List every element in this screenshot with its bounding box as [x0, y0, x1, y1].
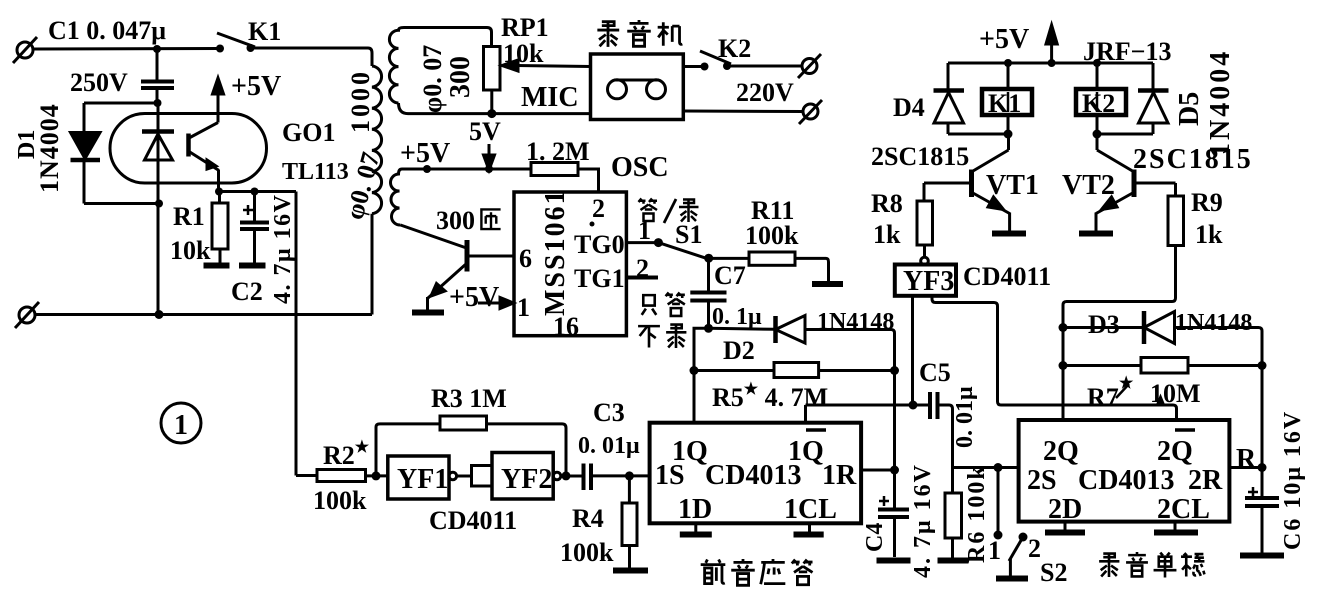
label R7 star: [1087, 375, 1134, 412]
node C2 tap: [251, 188, 259, 196]
wire secondary bottom to recorder: [399, 103, 591, 114]
ground VT1: [992, 231, 1026, 237]
svg-text:R6 100k: R6 100k: [964, 464, 990, 563]
svg-text:D5: D5: [1174, 92, 1205, 126]
transistor VT2 2SC1815: [1096, 134, 1176, 231]
svg-text:0. 1μ: 0. 1μ: [712, 304, 762, 330]
svg-text:2SC1815: 2SC1815: [1133, 144, 1253, 175]
svg-text:2: 2: [592, 194, 605, 223]
wire to D1: [84, 102, 158, 105]
node S2 branch: [994, 463, 1003, 472]
svg-text:S2: S2: [1040, 558, 1067, 587]
wire K2 to 220V: [727, 65, 801, 68]
wire rail to R2: [296, 474, 317, 477]
wire S1 to R11: [709, 257, 749, 260]
svg-text:D3: D3: [1088, 310, 1120, 339]
wire GO1 to R2 vertical: [295, 192, 298, 476]
svg-text:S1: S1: [675, 220, 702, 249]
svg-text:CD4011: CD4011: [429, 506, 517, 535]
node YF3 output to C5: [909, 401, 918, 410]
resistor R6 100k: [945, 468, 962, 559]
switch K2: [683, 51, 731, 71]
svg-text:D2: D2: [723, 336, 755, 365]
ground R6: [938, 558, 969, 564]
label qianyin yingda: [701, 559, 813, 585]
node D1 return on main vertical: [155, 200, 163, 208]
svg-text:2: 2: [636, 254, 649, 283]
svg-text:0. 01μ: 0. 01μ: [578, 433, 640, 459]
power +5V arrow top right: [1046, 25, 1057, 63]
svg-text:R: R: [1236, 444, 1257, 475]
label da/lu answer-record: [639, 199, 699, 224]
svg-text:C6 10μ 16V: C6 10μ 16V: [1280, 410, 1306, 550]
svg-text:1000: 1000: [346, 69, 375, 133]
wire R3 feedback left: [376, 424, 440, 476]
node emitter junction: [215, 188, 223, 196]
resistor 1.2M osc: [531, 163, 599, 193]
svg-text:R2★: R2★: [323, 439, 370, 470]
svg-text:MIC: MIC: [521, 82, 579, 113]
node RP1 bottom: [487, 109, 496, 118]
power +5V arrow at GO1: [213, 78, 224, 123]
wire 1Qbar to C5: [806, 405, 930, 423]
potentiometer RP1 10k: [484, 47, 591, 114]
label zhida answer-only: [642, 293, 685, 316]
wire D4 to K1 coil bottom: [948, 133, 1008, 136]
svg-text:1N4004: 1N4004: [35, 103, 64, 193]
relay coil K1: [982, 63, 1032, 134]
ground S2: [996, 576, 1028, 582]
tape recorder box: [591, 54, 684, 120]
svg-text:4. 7μ 16V: 4. 7μ 16V: [910, 463, 936, 578]
svg-text:★: ★: [1119, 375, 1134, 392]
svg-text:K2: K2: [1082, 89, 1115, 118]
svg-text:R4: R4: [572, 504, 604, 533]
label bulu no-record: [638, 325, 686, 348]
svg-text:300: 300: [436, 206, 475, 235]
GO1 internal LED: [142, 132, 174, 161]
svg-text:250V: 250V: [70, 68, 128, 97]
svg-text:100k: 100k: [313, 486, 367, 515]
IC U3 CD4013 second: [1019, 420, 1230, 522]
resistor R7 10M: [1063, 358, 1262, 374]
ground R11: [812, 281, 843, 287]
svg-text:1CL: 1CL: [784, 494, 837, 525]
svg-text:1N4004: 1N4004: [1205, 49, 1236, 157]
node D1 branch: [154, 99, 162, 107]
switch K1: [216, 33, 255, 53]
svg-text:OSC: OSC: [611, 152, 669, 183]
resistor R5 4.7M: [694, 363, 895, 378]
wire 1R to C4: [861, 469, 894, 472]
svg-text:1: 1: [638, 216, 651, 245]
svg-text:1S: 1S: [655, 460, 685, 491]
label za char: [481, 209, 500, 229]
GO1 phototransistor: [189, 123, 220, 192]
label 2Qbar: [1157, 430, 1195, 467]
wire bottom rail: [35, 313, 372, 316]
label TG0 star: [590, 222, 595, 227]
svg-text:YF1: YF1: [397, 464, 448, 495]
diode D3 1N4148: [1063, 311, 1259, 344]
wire top-left horizontal: [33, 47, 219, 51]
svg-text:1R: 1R: [822, 460, 857, 491]
svg-text:1: 1: [988, 536, 1001, 565]
svg-text:YF2: YF2: [501, 464, 552, 495]
wire recorder lower to 220V: [683, 110, 803, 114]
switch S1: [654, 238, 713, 263]
svg-text:R1: R1: [173, 202, 205, 231]
svg-text:VT2: VT2: [1062, 170, 1115, 201]
svg-text:R5★ 4. 7M: R5★ 4. 7M: [712, 381, 828, 412]
svg-text:6: 6: [519, 244, 532, 273]
wire TG0 to S1: [626, 241, 658, 244]
node D3 left: [1059, 323, 1068, 332]
power +5V arrow into pin1: [478, 298, 514, 309]
svg-text:10k: 10k: [503, 39, 544, 68]
wire C5 to 2S: [953, 466, 1019, 469]
svg-text:0. 01μ: 0. 01μ: [952, 386, 978, 448]
svg-text:1: 1: [174, 410, 188, 441]
svg-text:TG0: TG0: [574, 230, 625, 259]
node K1 coil bottom: [1004, 130, 1013, 139]
node +5V arrow: [1048, 59, 1056, 67]
wire D5 to K2 coil bottom: [1097, 133, 1153, 136]
svg-text:100k: 100k: [745, 221, 799, 250]
svg-text:1k: 1k: [1195, 220, 1223, 249]
svg-text:K2: K2: [718, 34, 751, 63]
node K2 coil bottom: [1093, 130, 1102, 139]
svg-text:2SC1815: 2SC1815: [871, 142, 969, 171]
node K2 coil top: [1093, 59, 1101, 67]
diode D2 1N4148: [709, 316, 892, 344]
node C1 tap: [153, 45, 161, 53]
wire D1 return: [84, 202, 159, 205]
transformer primary winding 1000 turns: [372, 66, 382, 315]
switch S2: [994, 468, 1028, 578]
ground R1: [204, 263, 230, 269]
gate YF1: [388, 456, 472, 499]
label recorder luyinji: [597, 20, 682, 47]
pin 2D ground: [1045, 522, 1085, 533]
node R7 left: [1059, 361, 1068, 370]
svg-text:C1 0. 047μ: C1 0. 047μ: [48, 16, 166, 45]
svg-text:R3 1M: R3 1M: [431, 384, 507, 413]
wire R9 jog to D3 rail: [1063, 298, 1176, 420]
ground VT2: [1079, 231, 1113, 237]
wire C7 node to 1Q pin vertical: [694, 328, 709, 423]
svg-text:K1: K1: [988, 89, 1021, 118]
capacitor C1: [141, 49, 174, 103]
transistor Q osc: [428, 240, 515, 310]
svg-text:CD4011: CD4011: [963, 262, 1051, 291]
resistor R4 100k: [622, 476, 637, 568]
svg-text:C7: C7: [714, 261, 746, 290]
terminal top-left phone line: [13, 37, 37, 63]
svg-text:R8: R8: [871, 189, 903, 218]
svg-text:C5: C5: [919, 358, 951, 387]
node bottom rail main vertical: [155, 310, 164, 319]
svg-text:2CL: 2CL: [1157, 494, 1210, 525]
wire D2 down right rail: [891, 330, 895, 510]
capacitor C3 0.01u: [584, 464, 650, 491]
svg-text:K1: K1: [248, 17, 281, 46]
resistor R2 100k: [317, 470, 388, 482]
capacitor C4 4.7u16V: [878, 496, 909, 557]
node R5 left: [690, 366, 699, 375]
pin TG1 stub: [626, 276, 658, 280]
node 5V arrow junction: [485, 165, 493, 173]
svg-text:2Q: 2Q: [1157, 436, 1193, 467]
IC U1 MSS1061: [514, 192, 626, 336]
node R7 right: [1258, 361, 1267, 370]
svg-text:C4: C4: [862, 523, 888, 552]
diode D4 1N4004: [934, 63, 965, 134]
svg-text:2S: 2S: [1027, 465, 1057, 496]
wire emitter rail: [219, 190, 296, 193]
ground Q osc: [412, 310, 444, 316]
svg-text:1: 1: [517, 293, 530, 322]
wire YF3 right pin to 2S node: [932, 296, 1177, 420]
wire main left vertical: [157, 103, 160, 315]
svg-text:+5V: +5V: [979, 24, 1029, 55]
svg-text:1. 2M: 1. 2M: [526, 137, 590, 166]
capacitor C6 10u16V: [1245, 487, 1279, 553]
label circled 1: [161, 403, 201, 443]
svg-text:CD4013: CD4013: [705, 460, 801, 491]
ground C2: [239, 263, 266, 269]
svg-text:2D: 2D: [1048, 494, 1082, 525]
wire +5V rail right: [948, 62, 1153, 65]
wire D3 right rail down: [1259, 328, 1263, 497]
capacitor C5 0.01u: [930, 392, 953, 468]
svg-text:TL113: TL113: [282, 159, 349, 185]
svg-text:300: 300: [445, 56, 476, 98]
svg-text:1k: 1k: [873, 220, 901, 249]
svg-text:220V: 220V: [736, 78, 794, 107]
svg-text:1N4148: 1N4148: [817, 309, 894, 335]
node YF2 output: [562, 471, 571, 480]
label 10M: [1150, 379, 1201, 408]
terminal bottom-left phone line: [15, 302, 39, 328]
label 1Qbar: [788, 430, 826, 467]
node +5V rail: [423, 165, 431, 173]
terminal 220V lower: [799, 100, 822, 124]
capacitor C2 4.7u16V: [240, 192, 269, 264]
svg-text:GO1: GO1: [282, 118, 335, 147]
wire 2R to rail: [1229, 466, 1262, 469]
pin 1CL ground: [794, 523, 824, 534]
label luyin danwen: [1099, 552, 1204, 577]
resistor R9 1k: [1168, 183, 1184, 298]
IC U2 CD4013 first: [650, 423, 862, 524]
svg-text:1D: 1D: [678, 494, 712, 525]
svg-text:C3: C3: [593, 398, 625, 427]
transistor VT1 2SC1815: [924, 134, 1010, 231]
svg-text:+5V: +5V: [449, 282, 499, 313]
svg-text:RP1: RP1: [501, 13, 549, 42]
relay coil K2: [1076, 63, 1126, 134]
resistor R1 10k: [212, 192, 228, 264]
node C3 right: [625, 471, 634, 480]
svg-text:1N4148: 1N4148: [1175, 310, 1252, 336]
optocoupler GO1 TL113 body: [110, 114, 267, 184]
node 2R: [1258, 463, 1267, 472]
svg-text:2Q: 2Q: [1043, 436, 1079, 467]
svg-text:MSS1061: MSS1061: [540, 188, 571, 316]
resistor R8 1k: [917, 183, 933, 258]
svg-text:100k: 100k: [560, 538, 614, 567]
svg-text:D4: D4: [893, 93, 925, 122]
svg-text:4. 7μ 16V: 4. 7μ 16V: [270, 194, 296, 304]
svg-text:2R: 2R: [1188, 465, 1223, 496]
resistor R11 100k: [749, 252, 829, 281]
ground C4: [877, 558, 911, 564]
ground R4: [613, 568, 648, 574]
node 1R: [890, 466, 899, 475]
svg-text:+5V: +5V: [231, 71, 281, 102]
pin 2CL ground: [1154, 522, 1198, 533]
node C7 bottom: [704, 324, 713, 333]
svg-text:C2: C2: [231, 277, 263, 306]
terminal 220V upper: [798, 54, 821, 78]
svg-text:φ0. 07: φ0. 07: [418, 45, 447, 113]
svg-text:5V: 5V: [469, 117, 501, 146]
gate YF3: [895, 257, 956, 296]
svg-text:16: 16: [553, 312, 579, 341]
capacitor C7 0.1u: [690, 258, 726, 328]
diode D5 1N4004: [1138, 63, 1169, 134]
gate YF2: [472, 453, 584, 500]
svg-text:R9: R9: [1191, 188, 1223, 217]
svg-text:TG1: TG1: [574, 264, 625, 293]
power 5V arrow into +5V rail: [484, 144, 495, 170]
svg-text:YF3: YF3: [903, 266, 954, 297]
node R2 right: [372, 471, 381, 480]
node K1 coil top: [1004, 59, 1012, 67]
wire YF3 left pin down: [911, 296, 914, 405]
svg-text:JRF−13: JRF−13: [1083, 37, 1171, 66]
svg-text:CD4013: CD4013: [1078, 465, 1174, 496]
ground C6: [1240, 553, 1284, 559]
svg-text:+5V: +5V: [400, 138, 450, 169]
wire +5V rail mid: [402, 168, 531, 171]
svg-text:10k: 10k: [170, 236, 211, 265]
pin 1D ground: [680, 523, 712, 534]
resistor R3 1M: [440, 416, 566, 476]
transformer secondary lower winding 300 turns: [390, 169, 465, 248]
svg-text:VT1: VT1: [986, 170, 1039, 201]
svg-text:R7: R7: [1087, 383, 1119, 412]
diode D1 1N4004: [71, 103, 101, 204]
transformer secondary upper winding: [389, 28, 491, 104]
wire K1 to transformer: [251, 48, 373, 66]
node R5 right: [890, 366, 899, 375]
